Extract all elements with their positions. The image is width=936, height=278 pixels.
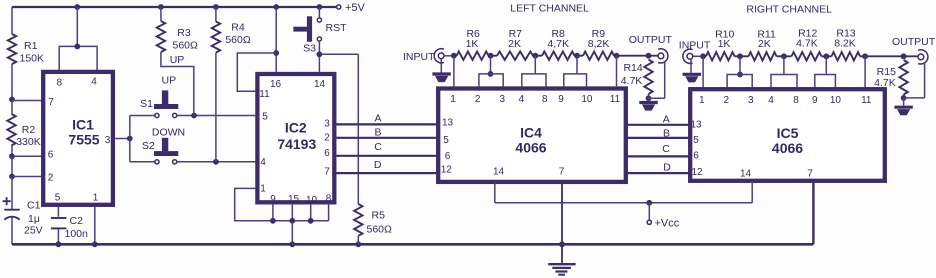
svg-text:13: 13 [690, 120, 702, 131]
label IC4 pin5 [443, 135, 449, 146]
svg-text:S2: S2 [142, 140, 155, 152]
wire tap3 stub right [825, 56, 827, 74]
svg-text:OUTPUT: OUTPUT [892, 36, 936, 48]
label R10 value 1K [718, 38, 731, 50]
wire bracket pins 2-3 right [727, 75, 752, 88]
label IC5 pin12 [691, 167, 703, 178]
wire +Vcc stub [648, 203, 650, 220]
resistor R1 [8, 34, 16, 64]
junction pin10 [308, 218, 314, 224]
wire tap3 stub [576, 56, 578, 74]
svg-text:5: 5 [443, 135, 449, 146]
svg-text:4.7K: 4.7K [621, 75, 643, 87]
svg-text:7: 7 [807, 169, 813, 180]
wire net C IC2-IC4 [336, 155, 437, 157]
svg-text:IC5: IC5 [777, 125, 799, 141]
svg-text:2: 2 [324, 133, 330, 144]
label IC1 pin7 [48, 97, 54, 108]
svg-text:100n: 100n [65, 228, 89, 240]
label C2 value 100n [65, 228, 89, 240]
junction R13-pin11 right [862, 53, 868, 59]
wire IC2 pin15 stub [291, 204, 293, 220]
label R4 value [225, 34, 251, 46]
svg-text:A: A [663, 113, 670, 125]
svg-text:13: 13 [442, 118, 454, 129]
wire R8-R9 [575, 55, 584, 57]
junction IC2 bracket on rail [289, 241, 295, 247]
svg-text:4: 4 [91, 77, 97, 88]
wire IC1 pin3 out [115, 138, 130, 140]
wire pin11 stub left [616, 56, 618, 87]
label R14 [623, 62, 642, 74]
svg-text:12: 12 [691, 167, 703, 178]
wire bracket pins 4-8 right [771, 75, 797, 88]
label IC2 pin14 [314, 79, 326, 90]
svg-text:RIGHT CHANNEL: RIGHT CHANNEL [746, 3, 832, 15]
junction pin15 [289, 218, 295, 224]
junction R12-R13 tap [823, 53, 829, 59]
label R15 value 4.7K [874, 77, 896, 89]
wire IC2 pin10 stub [310, 204, 312, 220]
svg-text:2K: 2K [758, 38, 771, 50]
label IC5 pin7 [807, 169, 813, 180]
junction R14 tap [646, 53, 652, 59]
wire node to IC1 pin7 [12, 100, 42, 102]
svg-text:DOWN: DOWN [152, 126, 185, 138]
switch S2 left contact [155, 160, 159, 164]
label IC5 pin8 [793, 95, 799, 106]
node +5V terminal [337, 5, 341, 9]
wire to S2 left [130, 161, 155, 163]
resistor R10 [706, 52, 735, 60]
wire IC5 pin14 stub [751, 181, 753, 203]
resistor R8 [542, 52, 575, 60]
resistor R9 [583, 52, 614, 60]
label IC5 pin10 [830, 95, 842, 106]
junction S3-R5 node [317, 51, 323, 57]
svg-text:6: 6 [445, 151, 451, 162]
resistor R4 [212, 22, 220, 53]
label IC5 pin1 [699, 95, 705, 106]
op IC1 7555 body [43, 72, 113, 205]
svg-text:3: 3 [500, 94, 506, 105]
wire bracket pins 9-10 right [815, 75, 836, 88]
svg-text:1: 1 [450, 94, 456, 105]
svg-text:10: 10 [581, 94, 593, 105]
svg-text:8,2K: 8,2K [588, 38, 610, 50]
node input jack right [683, 49, 693, 63]
wire input node to IC5 pin1 [702, 56, 704, 87]
svg-text:INPUT: INPUT [679, 40, 711, 52]
label R8 value 4.7K [547, 38, 569, 50]
svg-text:4: 4 [768, 95, 774, 106]
label UP switch [162, 75, 177, 87]
label IC2 [285, 119, 307, 135]
junction +Vcc [646, 200, 652, 206]
junction R9-pin11 [614, 53, 620, 59]
resistor R11 [749, 52, 777, 60]
wire R5 vertical [357, 54, 359, 204]
label R12 value 4.7K [796, 37, 818, 49]
svg-text:IC4: IC4 [520, 125, 542, 141]
svg-text:25V: 25V [24, 225, 43, 237]
node output jack right [918, 50, 928, 64]
wire ground rail [12, 243, 813, 246]
label IC2 pin6 [324, 148, 330, 159]
label IC5 value 4066 [772, 140, 803, 156]
label IC2 pin15 [288, 194, 300, 205]
label C1 value 1u [28, 213, 40, 225]
label IC2 pin3 [324, 119, 330, 130]
resistor R5 [354, 204, 362, 236]
wire R1 to pin7 node [11, 64, 13, 100]
label IC4 pin7 [559, 167, 565, 178]
svg-text:11: 11 [259, 89, 270, 100]
label IC4 pin2 [475, 94, 481, 105]
node input jack left [434, 49, 444, 63]
svg-text:11: 11 [610, 94, 621, 105]
svg-text:1μ: 1μ [28, 213, 40, 225]
ground output jack left [639, 98, 657, 110]
wire tap1 stub right [739, 56, 741, 74]
label R1 value 150K [20, 52, 45, 64]
label IC4 pin10 [581, 94, 593, 105]
junction R15 tap [901, 53, 907, 59]
svg-text:4: 4 [260, 157, 266, 168]
svg-text:8: 8 [57, 77, 63, 88]
junction R4 on rail [213, 4, 219, 10]
label INPUT right [679, 40, 711, 52]
wire net D IC4-IC5 [627, 172, 689, 174]
label OUTPUT left [629, 34, 673, 46]
wire bracket pins 4-8 left [522, 74, 546, 87]
switch IC4 4066 body [438, 89, 626, 182]
resistor R12 [792, 52, 822, 60]
junction tap1 bracket [488, 71, 494, 77]
svg-text:10: 10 [306, 195, 318, 206]
svg-text:7555: 7555 [68, 132, 99, 148]
svg-text:R14: R14 [623, 62, 642, 74]
label UP net [170, 54, 185, 66]
svg-text:D: D [374, 159, 382, 171]
svg-text:6: 6 [48, 150, 54, 161]
svg-text:C1: C1 [27, 199, 41, 211]
node output jack left [658, 49, 668, 63]
junction S3 on rail [317, 4, 323, 10]
label +5V [345, 2, 366, 14]
wire S1-S2 select vertical [129, 116, 131, 162]
svg-text:INPUT: INPUT [403, 51, 435, 63]
wire net A IC4-IC5 [627, 124, 689, 126]
label IC4 pin14 [493, 167, 505, 178]
wire tap2 stub [534, 56, 536, 74]
capacitor C1 bottom plate [4, 217, 19, 220]
junction pin2 node [9, 174, 15, 180]
svg-text:12: 12 [441, 165, 453, 176]
wire output jack sleeve left [649, 62, 665, 98]
svg-text:S3: S3 [303, 43, 316, 55]
label IC5 pin3 [748, 95, 754, 106]
svg-text:3: 3 [105, 135, 111, 146]
label R14 value 4.7K [621, 75, 643, 87]
label IC1 pin2 [48, 172, 54, 183]
wire tap2 stub right [783, 56, 785, 74]
label net C right [662, 143, 670, 155]
junction IC4 pin7 on rail [559, 241, 565, 247]
label +Vcc [655, 217, 680, 229]
wire IC2 pin9 stub [272, 204, 274, 220]
svg-text:S1: S1 [140, 98, 153, 110]
label R9 [592, 28, 606, 40]
wire pin11 stub right [864, 56, 866, 87]
svg-text:2: 2 [475, 94, 481, 105]
junction R15 ground [901, 95, 907, 101]
capacitor C1 polarity + [3, 197, 11, 205]
wire R3 elbow to S1 [161, 52, 194, 116]
svg-text:+5V: +5V [345, 2, 366, 14]
wire IC1 pin5 to C2 [57, 207, 59, 217]
svg-text:4066: 4066 [772, 140, 803, 156]
switch S2 plunger [154, 138, 178, 156]
wire pin6 node to pin2 node [11, 156, 13, 176]
wire +5V top rail [12, 6, 336, 8]
label R9 value 8.2K [588, 38, 610, 50]
svg-text:5: 5 [55, 192, 61, 203]
resistor R2 [7, 114, 15, 145]
wire R14 bottom [648, 94, 650, 98]
label LEFT CHANNEL [510, 3, 589, 15]
label S2 [142, 140, 155, 152]
svg-text:7: 7 [559, 167, 565, 178]
junction S2-R4 [213, 159, 219, 165]
svg-text:IC2: IC2 [285, 119, 307, 135]
wire R12-R13 [822, 55, 832, 57]
wire rail to R4 [215, 7, 217, 22]
label S3 [303, 43, 316, 55]
junction IC1 bracket [74, 44, 80, 50]
label R6 [466, 28, 480, 40]
svg-text:4066: 4066 [515, 140, 546, 156]
svg-text:14: 14 [314, 79, 326, 90]
svg-text:560Ω: 560Ω [173, 40, 199, 52]
svg-text:7: 7 [48, 97, 54, 108]
label R2 value 330K [16, 136, 41, 148]
ground input jack right [683, 74, 701, 82]
svg-text:5: 5 [262, 112, 268, 123]
svg-text:OUTPUT: OUTPUT [629, 34, 673, 46]
label RST [326, 22, 348, 34]
wire IC2 pin8 stub [328, 204, 330, 220]
svg-text:RST: RST [326, 22, 348, 34]
label R3 [177, 27, 191, 39]
svg-text:150K: 150K [20, 52, 45, 64]
wire C2 to ground rail [57, 230, 59, 245]
wire R11-R12 [777, 55, 792, 57]
svg-text:8: 8 [542, 94, 548, 105]
wire input jack ground stub right [690, 59, 692, 73]
svg-text:6: 6 [324, 148, 330, 159]
junction R11-R12 tap [781, 53, 787, 59]
wire left branch top [11, 7, 13, 34]
label R3 value [173, 40, 199, 52]
junction R3 on rail [158, 4, 164, 10]
label net A [374, 112, 381, 124]
label IC4 pin12 [441, 165, 453, 176]
svg-text:2K: 2K [508, 38, 521, 50]
svg-text:LEFT CHANNEL: LEFT CHANNEL [510, 3, 589, 15]
junction IC1 pin1 on rail [92, 241, 98, 247]
wire jack to node [445, 55, 452, 57]
label IC1 pin5 [55, 192, 61, 203]
label IC2 pin7 [324, 166, 330, 177]
label R11 value 2K [758, 38, 771, 50]
label IC1 value 7555 [68, 132, 99, 148]
label IC2 pin2 [324, 133, 330, 144]
label net D [374, 159, 382, 171]
label IC2 pin9 [270, 194, 276, 205]
label R8 [551, 28, 565, 40]
label IC5 pin11 [861, 95, 872, 106]
wire net C IC4-IC5 [627, 155, 689, 157]
label IC4 pin6 [445, 151, 451, 162]
wire R13 to output node [860, 55, 918, 57]
svg-text:4,7K: 4,7K [547, 38, 569, 50]
label RIGHT CHANNEL [746, 3, 832, 15]
ground earth symbol [548, 244, 575, 274]
wire input to R10 [703, 55, 706, 57]
wire IC2 pin16 to rail [275, 7, 277, 72]
svg-text:3: 3 [748, 95, 754, 106]
label R10 [715, 29, 734, 41]
wire IC1 pin1 to ground rail [94, 207, 96, 244]
svg-text:1: 1 [93, 192, 99, 203]
label IC5 [777, 125, 799, 141]
svg-text:330K: 330K [16, 136, 41, 148]
label IC2 pin11 [259, 89, 270, 100]
svg-text:15: 15 [288, 194, 300, 205]
label INPUT left [403, 51, 435, 63]
svg-text:7: 7 [324, 166, 330, 177]
node +Vcc terminal [647, 220, 651, 224]
label R7 value 2K [508, 38, 521, 50]
wire bracket pins 9-10 left [564, 74, 587, 87]
svg-text:1K: 1K [466, 38, 479, 50]
label IC1 pin4 [91, 77, 97, 88]
label IC1 [72, 117, 94, 133]
svg-text:R4: R4 [231, 22, 245, 34]
label R7 [509, 28, 523, 40]
wire R10-R11 [735, 55, 749, 57]
svg-text:C: C [662, 143, 670, 155]
svg-text:4.7K: 4.7K [796, 37, 818, 49]
resistor R7 [497, 52, 533, 60]
label IC5 pin14 [740, 169, 752, 180]
label R5 value [367, 223, 393, 235]
label IC2 pin10 [306, 195, 318, 206]
counter IC2 74193 body [257, 74, 334, 202]
svg-text:11: 11 [861, 95, 872, 106]
svg-text:560Ω: 560Ω [225, 34, 251, 46]
wire bracket pins 2-3 left [479, 74, 503, 87]
svg-text:+Vcc: +Vcc [655, 217, 680, 229]
wire IC5 pin7 to rail corner [812, 181, 814, 245]
label net B [374, 127, 381, 139]
junction tap1 bracket right [737, 72, 743, 78]
label net B right [663, 128, 670, 140]
label IC1 pin6 [48, 150, 54, 161]
label IC2 value 74193 [277, 136, 316, 152]
wire jack to node right [693, 55, 700, 57]
wire rail to S3 [318, 7, 320, 18]
label IC1 pin8 [57, 77, 63, 88]
label IC4 [520, 125, 542, 141]
junction pin3 node [127, 136, 133, 142]
label S1 [140, 98, 153, 110]
resistor R3 [157, 21, 165, 52]
svg-text:1K: 1K [718, 38, 731, 50]
svg-text:5: 5 [693, 135, 699, 146]
svg-text:6: 6 [693, 151, 699, 162]
label IC2 pin1 [260, 184, 266, 195]
switch S1 plunger [154, 90, 178, 109]
resistor R6 [457, 52, 489, 60]
svg-text:74193: 74193 [277, 136, 316, 152]
switch S1 left contact [155, 113, 159, 117]
wire R15 bottom [903, 95, 905, 98]
svg-text:4.7K: 4.7K [874, 77, 896, 89]
wire R2 to pin6 node [11, 145, 13, 156]
wire R7-R8 [533, 55, 542, 57]
junction pin9 [270, 218, 276, 224]
svg-text:B: B [663, 128, 670, 140]
label IC4 pin4 [519, 94, 525, 105]
label R15 [877, 66, 896, 78]
wire +Vcc line [495, 202, 752, 204]
wire IC2 pin1 loop [235, 188, 329, 220]
svg-text:UP: UP [170, 54, 185, 66]
label R13 value 8.2K [834, 37, 856, 49]
junction R5 on rail [355, 241, 361, 247]
wire input to R6 [454, 55, 457, 57]
label IC2 pin4 [260, 157, 266, 168]
label IC5 pin4 [768, 95, 774, 106]
wire node to IC1 pin2 [12, 176, 42, 178]
switch S3 top contact [317, 18, 321, 22]
label R1 [24, 40, 38, 52]
capacitor C1 top plate [4, 209, 19, 211]
label C1 [27, 199, 41, 211]
svg-text:2: 2 [724, 95, 730, 106]
svg-text:14: 14 [493, 167, 505, 178]
wire IC1 pins 8-4 supply bracket [59, 7, 97, 70]
label R12 [798, 28, 817, 40]
junction R8-R9 tap [574, 53, 580, 59]
wire pin2 node to C1 [11, 177, 13, 210]
label IC5 pin13 [690, 120, 702, 131]
label net C [374, 141, 382, 153]
label IC2 pin5 [262, 112, 268, 123]
svg-text:R1: R1 [24, 40, 38, 52]
svg-text:1: 1 [260, 184, 266, 195]
wire pin7 node to R2 [11, 100, 13, 115]
junction R6-R7 tap [488, 53, 494, 59]
label IC4 value 4066 [515, 140, 546, 156]
label R4 [231, 22, 245, 34]
svg-text:UP: UP [162, 75, 177, 87]
svg-text:8: 8 [793, 95, 799, 106]
ground output jack right [894, 98, 912, 115]
wire IC4 pin7 to rail [561, 182, 563, 244]
